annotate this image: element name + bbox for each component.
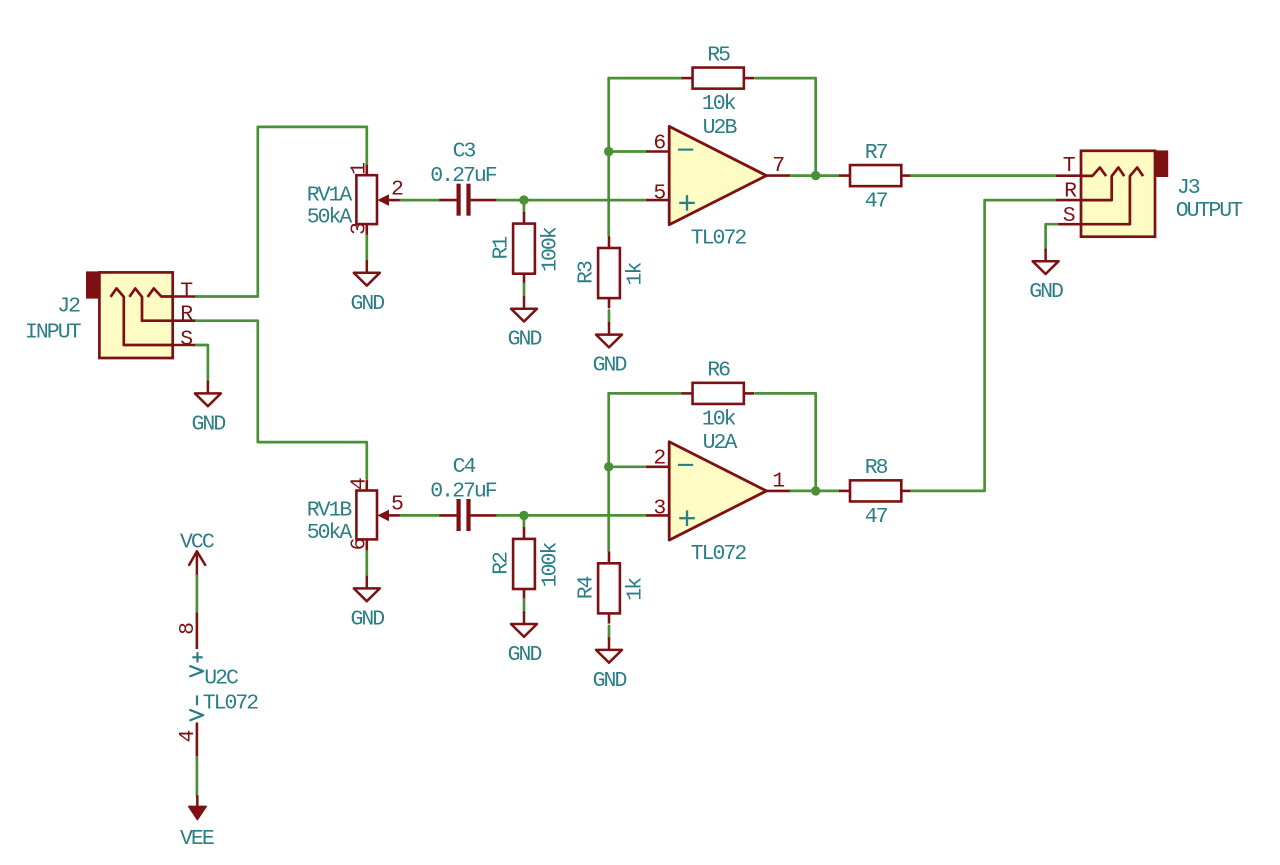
wire VCC to U2C pin8 — [196, 576, 199, 613]
svg-text:3: 3 — [348, 223, 372, 235]
svg-text:U2B: U2B — [703, 116, 738, 140]
resistor R1 — [489, 212, 562, 284]
op-amp U2A — [646, 431, 791, 566]
J3 sleeve contact — [1081, 168, 1143, 225]
wire C3 to op-amp pin5 — [497, 199, 646, 202]
J2 pin R — [173, 319, 197, 322]
J2 reference and INPUT label — [25, 295, 82, 345]
wire R1 to ground — [523, 284, 526, 297]
ground R1 — [508, 297, 542, 352]
svg-text:C4: C4 — [453, 455, 476, 479]
junction at U2B inverting input — [604, 147, 613, 156]
svg-text:J2: J2 — [57, 295, 80, 319]
ground R4 — [593, 638, 627, 693]
svg-text:47: 47 — [865, 190, 888, 214]
svg-text:50kA: 50kA — [307, 521, 353, 545]
svg-text:5: 5 — [391, 493, 403, 517]
svg-text:100k: 100k — [538, 227, 562, 272]
resistor R4 — [574, 552, 647, 624]
junction at U2A inverting input — [604, 462, 613, 471]
connector J2 body — [99, 272, 172, 358]
svg-text:VEE: VEE — [180, 827, 214, 851]
wire R2 to ground — [523, 599, 526, 612]
J3 pin T — [1057, 174, 1081, 177]
wire R5 to output node — [755, 78, 815, 176]
U2C reference and value — [203, 667, 259, 716]
svg-text:R6: R6 — [707, 359, 730, 383]
J2 sleeve contact — [111, 288, 173, 345]
resistor R7 — [839, 141, 912, 214]
svg-text:R1: R1 — [489, 237, 513, 260]
potentiometer RV1B — [307, 478, 403, 551]
svg-text:GND: GND — [350, 292, 384, 316]
svg-text:R4: R4 — [574, 576, 598, 599]
wire feedback top to R5 — [609, 77, 682, 80]
resistor R3 — [574, 236, 647, 308]
J3 pin R — [1057, 199, 1081, 202]
wire J2 T to corner — [196, 127, 366, 297]
wire U2A output to R8 — [791, 490, 839, 493]
svg-text:GND: GND — [350, 607, 384, 631]
J2 pin S — [173, 344, 197, 347]
potentiometer RV1A — [307, 163, 403, 236]
wire J2 R down to lower channel — [196, 321, 366, 479]
svg-text:4: 4 — [348, 478, 372, 490]
wire C4 to op-amp pin3 — [497, 514, 646, 517]
op-amp U2C power unit pin 8 V+ — [176, 613, 203, 677]
resistor R6 — [682, 359, 755, 432]
power flag VEE — [180, 795, 214, 851]
svg-text:4: 4 — [176, 731, 200, 743]
connector J2 sleeve tab — [86, 271, 100, 298]
svg-text:2: 2 — [391, 177, 403, 201]
ground RV1B — [350, 577, 384, 632]
connector J3 body — [1081, 151, 1155, 237]
svg-text:6: 6 — [348, 538, 372, 550]
svg-text:OUTPUT: OUTPUT — [1176, 199, 1244, 223]
svg-text:GND: GND — [593, 669, 627, 693]
ground R2 — [508, 613, 542, 668]
J3 tip contact — [1081, 168, 1106, 177]
svg-text:100k: 100k — [538, 543, 562, 588]
svg-text:R5: R5 — [707, 43, 730, 67]
wire R3 to ground — [608, 311, 611, 324]
capacitor C4 — [430, 455, 497, 531]
svg-text:J3: J3 — [1177, 176, 1200, 200]
svg-text:2: 2 — [653, 447, 665, 471]
ground RV1A — [350, 261, 384, 316]
svg-text:10k: 10k — [702, 92, 736, 116]
svg-text:1k: 1k — [623, 263, 647, 286]
svg-text:10k: 10k — [702, 407, 736, 431]
svg-text:R7: R7 — [865, 141, 888, 165]
junction at U2A output — [811, 486, 820, 495]
svg-text:GND: GND — [593, 354, 627, 378]
svg-text:TL072: TL072 — [203, 691, 259, 715]
wire RV1A wiper to C3 — [401, 199, 439, 202]
wire feedback vertical to R3 — [607, 78, 610, 235]
capacitor C3 — [430, 140, 497, 216]
svg-text:RV1A: RV1A — [307, 183, 353, 207]
connector J3 sleeve tab — [1154, 150, 1169, 177]
svg-text:R3: R3 — [574, 261, 598, 284]
J3 pin labels T R S — [1063, 154, 1077, 228]
wire feedback vertical to R4 — [607, 393, 610, 550]
svg-text:50kA: 50kA — [307, 206, 353, 230]
svg-text:S: S — [180, 327, 192, 351]
resistor R5 — [682, 43, 755, 116]
wire U2B pin6 — [609, 150, 647, 153]
svg-text:RV1B: RV1B — [307, 499, 353, 523]
svg-text:U2C: U2C — [204, 667, 238, 691]
svg-text:0.27uF: 0.27uF — [430, 479, 497, 503]
wire U2C pin4 to VEE — [196, 757, 199, 795]
svg-text:U2A: U2A — [703, 431, 738, 455]
wire R8 up to J3 R — [912, 200, 1058, 491]
svg-text:1: 1 — [772, 469, 784, 493]
op-amp U2B — [646, 116, 791, 251]
junction at U2B output — [811, 171, 820, 180]
wire feedback top to R6 — [609, 392, 682, 395]
svg-text:47: 47 — [865, 505, 888, 529]
svg-text:GND: GND — [508, 643, 542, 667]
svg-text:C3: C3 — [453, 140, 476, 164]
svg-text:GND: GND — [1029, 280, 1063, 304]
J2 tip contact — [148, 288, 173, 297]
ground J3-S — [1029, 250, 1063, 305]
svg-text:7: 7 — [772, 154, 784, 178]
resistor R2 — [489, 527, 562, 599]
svg-text:1: 1 — [348, 163, 372, 175]
svg-text:8: 8 — [176, 623, 200, 635]
J2 pin labels T R S — [180, 279, 193, 351]
wire RV1B pin6 to ground — [365, 551, 368, 577]
wire J2 S to ground — [196, 345, 208, 382]
svg-text:INPUT: INPUT — [25, 320, 82, 344]
svg-text:TL072: TL072 — [691, 227, 747, 251]
ground R3 — [593, 323, 627, 378]
svg-text:GND: GND — [192, 412, 226, 436]
wire R7 to J3 T — [912, 174, 1058, 177]
wire RV1B wiper to C4 — [401, 514, 439, 517]
wire junction to R2 — [523, 515, 526, 527]
resistor R8 — [839, 456, 912, 529]
wire junction to R1 — [523, 200, 526, 212]
junction at C3 output node — [519, 195, 528, 204]
J3 pin S — [1057, 223, 1081, 226]
wire R6 to output node — [755, 393, 815, 491]
wire R4 to ground — [608, 626, 611, 639]
J3 reference and OUTPUT label — [1176, 176, 1244, 223]
wire U2A pin2 — [609, 465, 647, 468]
op-amp U2C power unit pin 4 V- — [176, 695, 203, 757]
wire RV1A pin3 to ground — [365, 236, 368, 261]
svg-text:5: 5 — [653, 181, 665, 205]
wire J3 S to ground — [1046, 224, 1058, 250]
svg-text:R2: R2 — [489, 552, 513, 575]
svg-text:R8: R8 — [865, 456, 888, 480]
svg-text:S: S — [1063, 204, 1075, 228]
J2 ring contact — [129, 288, 172, 320]
J3 ring contact — [1081, 168, 1124, 201]
svg-text:6: 6 — [653, 131, 665, 155]
svg-text:3: 3 — [653, 497, 665, 521]
svg-text:TL072: TL072 — [691, 542, 747, 566]
junction at C4 output node — [519, 511, 528, 520]
svg-text:GND: GND — [508, 328, 542, 352]
ground J2-S — [192, 382, 226, 437]
svg-text:1k: 1k — [623, 578, 647, 601]
svg-text:0.27uF: 0.27uF — [430, 164, 497, 188]
power flag VCC — [180, 530, 214, 576]
wire U2B output to R7 — [791, 174, 839, 177]
J2 pin T — [173, 295, 197, 298]
